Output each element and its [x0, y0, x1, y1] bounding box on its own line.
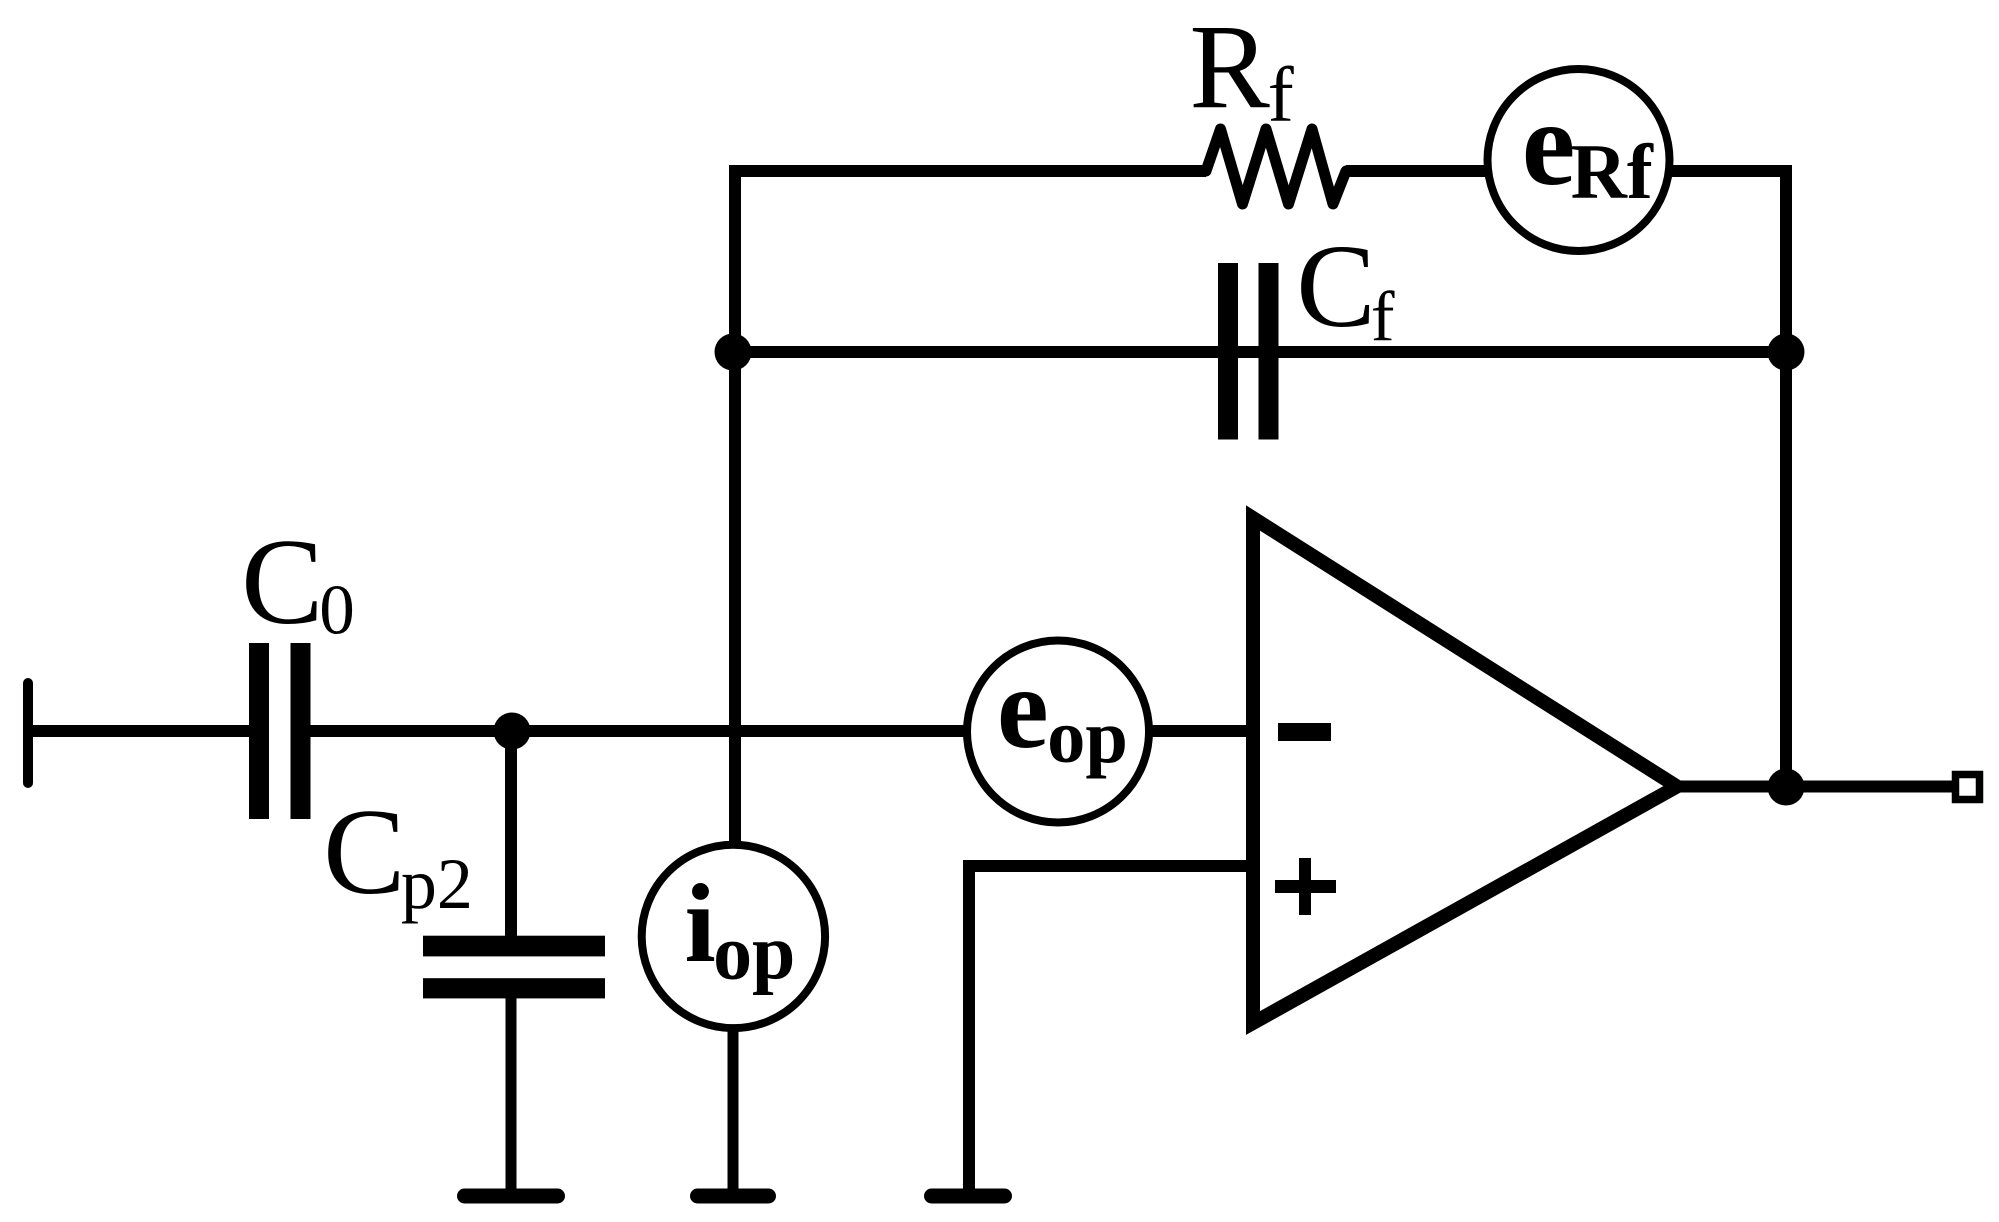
svg-text:e: e — [1522, 77, 1576, 211]
svg-text:op: op — [713, 910, 795, 996]
svg-text:op: op — [1047, 694, 1128, 779]
svg-text:C: C — [323, 783, 405, 920]
svg-text:i: i — [685, 862, 716, 986]
svg-text:f: f — [1268, 51, 1294, 138]
svg-text:e: e — [997, 644, 1049, 773]
svg-text:C: C — [241, 513, 323, 650]
svg-text:p2: p2 — [401, 844, 473, 924]
svg-text:R: R — [1189, 1, 1270, 134]
svg-text:Rf: Rf — [1571, 129, 1654, 215]
svg-text:0: 0 — [319, 571, 355, 649]
svg-text:C: C — [1296, 220, 1375, 352]
svg-text:f: f — [1371, 278, 1395, 356]
